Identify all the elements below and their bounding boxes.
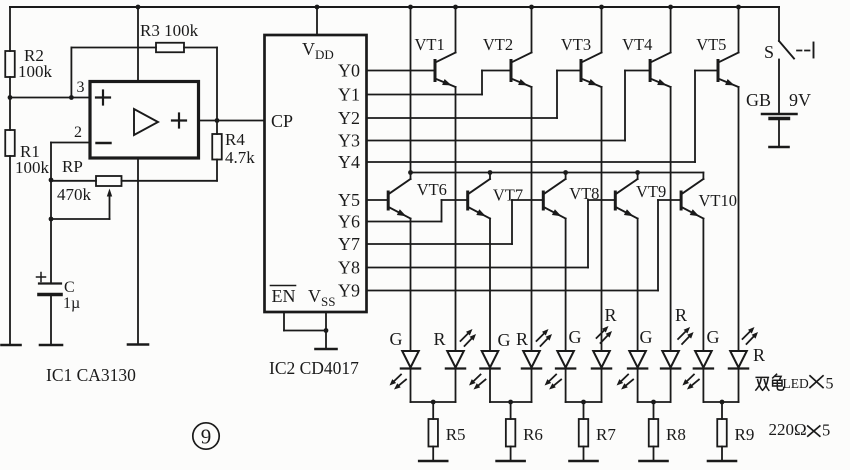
wire common cathode channel 5 [703,401,738,403]
capacitor C 1µ [37,273,81,313]
svg-text:IC1 CA3130: IC1 CA3130 [46,365,136,385]
wire rail to VT6-VT10 collector feed [410,7,412,173]
wire node to R9 [721,402,723,419]
wire EN pin to VSS [284,312,326,331]
wire Y8 to VT9 base [367,200,616,268]
ground channel 2 [497,460,525,463]
svg-text:VT6: VT6 [417,180,447,199]
wire VT5 emitter to R LED 5 [738,87,740,351]
wire VDD pin [316,7,318,35]
LED green D4G [628,327,653,369]
svg-text:IC2 CD4017: IC2 CD4017 [269,358,359,378]
wire R LED 2 cathode down [531,369,533,403]
resistor R8 [649,419,686,447]
node channel 1 [431,400,436,405]
wire R8 to ground [653,447,655,462]
wire Y5 to VT6 base [367,199,389,201]
wire VT7 emitter to G LED 2 [489,219,491,352]
node output [215,118,220,123]
LED red D5R [729,345,765,369]
wire positive supply rail [10,6,779,8]
node rail mid supply [136,5,141,10]
svg-text:R7: R7 [596,425,616,444]
svg-text:R: R [516,329,528,349]
IC U2 CD4017 body [265,35,367,312]
LED green D2G [480,330,510,369]
transistor VT7 [468,179,523,219]
wire Y3 to VT4 base [367,71,651,141]
wire common cathode channel 4 [638,401,671,403]
LED green D5G arrows [682,375,699,390]
transistor VT4 [622,35,671,87]
ground IC2 [316,348,337,351]
wire R LED 1 cathode down [455,369,457,403]
wire VT3 emitter to R LED 3 [601,87,603,351]
wire mid supply to op-amp V+ [137,7,139,82]
transistor VT9 [615,179,666,219]
svg-text:VT8: VT8 [569,184,599,203]
svg-text:R4: R4 [225,130,245,149]
svg-text:Y1: Y1 [338,85,360,105]
label bi-color LED x5 [756,374,834,392]
LED red D1R arrows [461,329,477,346]
wire rail to switch [778,7,780,41]
LED green D2G arrows [469,375,486,390]
ground op-amp [128,343,148,346]
wire VT1 collector from rail [455,7,457,53]
resistor R5 [428,419,465,447]
LED red D4R [661,305,687,369]
svg-text:R6: R6 [523,425,543,444]
wire VT4 collector from rail [670,7,672,53]
svg-text:VT10: VT10 [699,191,738,210]
wire Y1 to VT2 base [367,71,512,95]
node rail VT2 [529,5,534,10]
svg-text:R: R [675,305,687,325]
wire to R3 [71,47,156,49]
LED red D1R [434,329,466,369]
wire VT7 collector stub [489,173,491,180]
svg-text:R9: R9 [735,425,755,444]
LED green D1G arrows [390,375,407,390]
svg-text:5: 5 [826,376,834,393]
node rail VT5 [736,5,741,10]
resistor R7 [579,419,617,447]
LED red D3R [592,305,617,369]
resistor R2 [5,46,52,81]
LED red D4R arrows [678,327,694,344]
wire VT9 emitter to G LED 4 [637,219,639,352]
resistor R1 [5,130,49,177]
svg-text:LED: LED [783,376,809,391]
wire op-amp V- to ground [137,158,139,345]
svg-text:S: S [764,42,774,62]
wire R4 to output node [216,121,218,135]
ground battery [770,146,789,149]
transistor VT8 [543,179,599,219]
svg-text:G: G [569,327,582,347]
svg-text:VT2: VT2 [483,35,513,54]
svg-text:5: 5 [822,421,830,440]
wire wiper to pin2 node [51,218,110,220]
svg-text:RP: RP [62,157,83,176]
wire G LED 5 cathode down [702,369,704,403]
wire feedback up [70,48,72,98]
wire pin2 to RP left end [51,180,96,182]
svg-text:2: 2 [74,124,82,141]
wire Y2 to VT3 base [367,71,582,119]
label 220 ohm x5 [769,420,831,440]
svg-text:CP: CP [271,111,293,131]
svg-text:9V: 9V [789,90,811,110]
svg-text:100k: 100k [15,158,50,177]
svg-text:9: 9 [201,425,212,449]
wire VSS to ground [325,312,327,349]
svg-text:VT7: VT7 [493,185,523,204]
node rail VT4 [668,5,673,10]
transistor VT2 [483,35,532,87]
ground left [2,344,21,347]
svg-text:VT4: VT4 [622,35,652,54]
wire battery to ground [778,119,780,148]
svg-text:Y7: Y7 [338,234,360,254]
wire VT2 collector from rail [531,7,533,53]
svg-text:R8: R8 [666,425,686,444]
node R1-R2 junction [8,95,13,100]
wire R LED 5 cathode down [738,369,740,403]
svg-text:Y5: Y5 [338,190,360,210]
svg-text:G: G [640,327,653,347]
wire VT6 emitter to G LED 1 [410,219,412,352]
node channel 4 [651,400,656,405]
wire common cathode channel 1 [411,401,456,403]
svg-text:R5: R5 [446,425,466,444]
node feed VT8 [563,170,568,175]
svg-text:R: R [753,345,765,365]
svg-text:C: C [64,279,75,296]
svg-text:Y3: Y3 [338,131,360,151]
wire collector feed line [411,172,704,174]
svg-text:4.7k: 4.7k [225,148,255,167]
node rail VT1 [453,5,458,10]
wire VT3 collector from rail [601,7,603,53]
transistor VT3 [561,35,602,87]
node rail VDD [315,5,320,10]
svg-text:3: 3 [77,79,85,96]
node channel 5 [720,400,725,405]
transistor VT10 [681,179,737,219]
svg-text:GB: GB [746,90,771,110]
wire capacitor to ground [50,295,52,346]
wire R2 to R1 [9,77,11,130]
figure number 9 [193,423,219,449]
wire VT5 collector from rail [738,7,740,53]
LED green D1G [390,329,421,369]
wire Y7 to VT8 base [367,200,544,244]
node rail feed [408,5,413,10]
svg-text:Y9: Y9 [338,281,360,301]
wire VT6 collector stub [410,173,412,180]
wire R7 to ground [583,447,585,462]
resistor R6 [506,419,543,447]
transistor VT6 [388,179,447,219]
node channel 3 [581,400,586,405]
LED red D5R arrows [743,327,759,344]
wire op-amp pin 2 [51,143,90,220]
wire node to R7 [583,402,585,419]
wire VT2 emitter to R LED 2 [531,87,533,351]
svg-text:G: G [390,329,403,349]
wire Y9 to VT10 base [367,200,682,291]
wire G LED 3 cathode down [565,369,567,403]
potentiometer RP 470k [57,157,122,219]
wire R9 to ground [721,447,723,462]
op-amp U1 body [90,82,199,159]
wire G LED 2 cathode down [489,369,491,403]
svg-text:VT3: VT3 [561,35,591,54]
wire R5 to ground [432,447,434,462]
wire VT8 emitter to G LED 3 [565,219,567,352]
ground channel 3 [570,460,598,463]
wire common cathode channel 3 [566,401,602,403]
wire VT10 collector stub [702,173,704,180]
LED green D3G arrows [545,375,562,390]
ground capacitor [40,344,62,347]
node feed VT9 [635,170,640,175]
svg-text:VT1: VT1 [415,35,445,54]
svg-text:G: G [707,327,720,347]
svg-text:100k: 100k [18,62,53,81]
svg-text:Y0: Y0 [338,61,360,81]
wire R LED 4 cathode down [670,369,672,403]
wire R1 to ground [9,156,11,345]
svg-text:R: R [605,305,617,325]
node pin2-RP [49,178,54,183]
node EN-VSS [324,328,329,333]
transistor VT5 [696,35,738,87]
svg-text:Y8: Y8 [338,258,360,278]
wire to op-amp pin 3 [10,97,90,99]
resistor R4 4.7k [212,130,255,167]
node rail VT3 [599,5,604,10]
svg-text:R3 100k: R3 100k [140,21,199,40]
switch S [764,41,814,62]
resistor R9 [717,419,754,447]
ground channel 1 [419,460,447,463]
wire Y4 to VT5 base [367,71,719,163]
wire common cathode channel 2 [490,401,532,403]
wire Y6 to VT7 base [367,200,468,222]
wire switch to battery [778,60,780,115]
resistor R3 100k [140,21,199,52]
wire G LED 4 cathode down [637,369,639,403]
svg-text:1µ: 1µ [63,295,80,312]
svg-text:470k: 470k [57,185,92,204]
svg-text:VT9: VT9 [636,182,666,201]
wire node to R6 [510,402,512,419]
node feed VT7 [488,170,493,175]
wire Y0 to VT1 base [367,70,436,72]
svg-text:VT5: VT5 [696,35,726,54]
wire VT10 emitter to G LED 5 [702,219,704,352]
wire op-amp output to CP [199,120,265,122]
svg-text:R: R [434,329,446,349]
node pin2-C junction [49,217,54,222]
wire VT4 emitter to R LED 4 [670,87,672,351]
LED red D3R arrows [597,326,613,343]
svg-text:G: G [498,330,511,350]
wire R3 to output node [184,48,217,121]
wire VT8 collector stub [565,173,567,180]
svg-text:Y6: Y6 [338,212,360,232]
svg-text:Y4: Y4 [338,152,360,172]
svg-text:220Ω: 220Ω [769,420,807,439]
node pin 3 [69,95,74,100]
wire R LED 3 cathode down [601,369,603,403]
LED red D2R arrows [537,329,553,346]
wire node to R5 [432,402,434,419]
LED green D3G [556,327,582,369]
ground channel 5 [708,460,736,463]
wire VT1 emitter to R LED 1 [455,87,457,351]
wire node to R8 [653,402,655,419]
LED green D4G arrows [617,375,634,390]
wire VT9 collector stub [637,173,639,180]
battery GB 9V [746,90,811,119]
node feed VT6 [408,170,413,175]
pin label EN [271,286,296,307]
node channel 2 [508,400,513,405]
wire left supply branch [9,7,11,51]
wire RP to R4 [122,160,218,181]
LED green D5G [694,327,720,369]
wire R6 to ground [510,447,512,462]
transistor VT1 [415,35,456,87]
wire pin2 node to capacitor [50,219,52,283]
svg-text:EN: EN [272,286,296,306]
svg-text:Y2: Y2 [338,108,360,128]
wire G LED 1 cathode down [410,369,412,403]
LED red D2R [516,329,541,369]
ground channel 4 [640,460,668,463]
